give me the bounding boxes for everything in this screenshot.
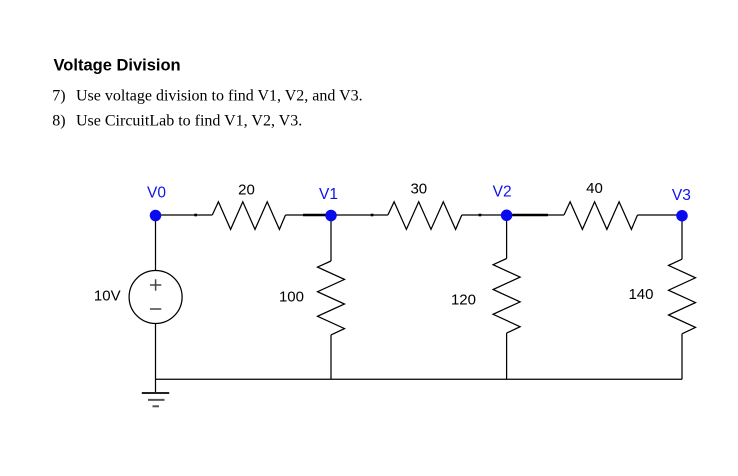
node V2 dot xyxy=(501,210,512,222)
svg-text:20: 20 xyxy=(238,182,255,199)
wire overlap (thick) left of V1 xyxy=(303,214,326,217)
wire: R30 to node V2 xyxy=(462,214,507,216)
wire: V1 down to R100 xyxy=(330,215,332,261)
node V0 dot xyxy=(150,210,162,222)
svg-text:30: 30 xyxy=(410,181,427,198)
svg-text:40: 40 xyxy=(586,180,603,197)
svg-text:Voltage Division: Voltage Division xyxy=(54,57,181,75)
wire: node V0 to R20 xyxy=(156,214,213,216)
resistor R40 (40 ohm, horizontal) xyxy=(564,202,638,230)
voltage source minus sign xyxy=(150,308,161,310)
svg-text:120: 120 xyxy=(451,292,476,309)
wire: node V1 to R30 xyxy=(331,214,388,216)
wire: V3 down to R140 xyxy=(681,215,683,259)
wire junction tick left of R30 xyxy=(371,214,374,217)
wire: node V2 to R40 xyxy=(507,214,564,216)
voltage source plus sign xyxy=(150,279,161,290)
resistor R20 (20 ohm, horizontal) xyxy=(212,202,285,230)
bottom rail wire xyxy=(156,378,683,380)
wire: source bottom to ground xyxy=(155,324,157,394)
svg-text:V2: V2 xyxy=(493,183,512,200)
wire: V2 down to R120 xyxy=(506,215,508,259)
wire: R100 to bottom rail xyxy=(330,335,332,379)
ground symbol xyxy=(142,393,169,406)
wire junction tick left of R20 xyxy=(194,214,197,217)
wire overlap (thick) right of V2 xyxy=(512,214,548,217)
resistor R120 (120 ohm, vertical) xyxy=(493,259,520,334)
wire: R40 to node V3 xyxy=(638,214,683,216)
svg-text:Use voltage division to find V: Use voltage division to find V1, V2, and… xyxy=(76,88,363,105)
node V3 dot xyxy=(676,210,688,222)
resistor R30 (30 ohm, horizontal) xyxy=(388,202,462,230)
svg-text:140: 140 xyxy=(628,286,653,303)
voltage source VS1 circle (10V) xyxy=(129,271,182,324)
node V1 dot xyxy=(325,210,337,222)
svg-text:V0: V0 xyxy=(147,185,166,202)
svg-text:10V: 10V xyxy=(94,287,121,304)
svg-text:8): 8) xyxy=(52,112,65,129)
svg-text:Use CircuitLab to find V1, V2,: Use CircuitLab to find V1, V2, V3. xyxy=(76,112,302,129)
svg-text:100: 100 xyxy=(279,289,304,306)
wire: R140 to bottom rail xyxy=(681,334,683,380)
resistor R100 (100 ohm, vertical) xyxy=(318,261,345,335)
resistor R140 (140 ohm, vertical) xyxy=(669,259,696,334)
wire: R120 to bottom rail xyxy=(506,333,508,379)
svg-text:V1: V1 xyxy=(319,186,338,203)
wire: V0 down to source xyxy=(155,215,157,271)
wire junction tick left of V2 xyxy=(479,214,482,217)
svg-text:7): 7) xyxy=(52,88,65,105)
svg-text:V3: V3 xyxy=(672,187,691,204)
problem text line 8 xyxy=(52,112,302,129)
wire: R20 to node V1 xyxy=(286,214,332,216)
problem text line 7 xyxy=(52,88,362,105)
